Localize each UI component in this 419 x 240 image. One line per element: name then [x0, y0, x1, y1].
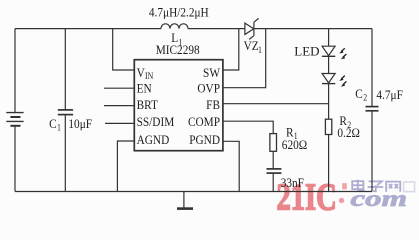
svg-text:4.7μF: 4.7μF — [376, 87, 403, 102]
svg-text:com: com — [351, 187, 408, 212]
svg-text:LED: LED — [294, 43, 319, 58]
svg-text:IN: IN — [145, 70, 153, 81]
svg-text:EN: EN — [137, 81, 152, 96]
svg-text:SW: SW — [203, 65, 220, 80]
svg-text:VZ: VZ — [244, 38, 259, 53]
svg-text:MIC2298: MIC2298 — [156, 42, 200, 57]
svg-text:0.2Ω: 0.2Ω — [337, 125, 360, 140]
svg-text:COMP: COMP — [188, 114, 220, 129]
svg-text:FB: FB — [206, 97, 220, 112]
svg-text:2: 2 — [363, 92, 367, 103]
svg-text:1: 1 — [57, 122, 61, 133]
svg-text:4.7μH/2.2μH: 4.7μH/2.2μH — [149, 5, 209, 20]
svg-text:V: V — [137, 65, 145, 80]
svg-text:SS/DIM: SS/DIM — [137, 114, 175, 129]
svg-text:10μF: 10μF — [68, 116, 92, 131]
svg-text:C: C — [49, 116, 57, 131]
svg-text:BRT: BRT — [137, 97, 159, 112]
svg-text:AGND: AGND — [137, 132, 170, 147]
svg-text:1: 1 — [258, 44, 262, 55]
svg-text:PGND: PGND — [189, 132, 220, 147]
svg-text:33nF: 33nF — [281, 175, 304, 190]
svg-text:OVP: OVP — [197, 81, 220, 96]
svg-text:620Ω: 620Ω — [282, 137, 307, 152]
svg-text:C: C — [355, 86, 363, 101]
